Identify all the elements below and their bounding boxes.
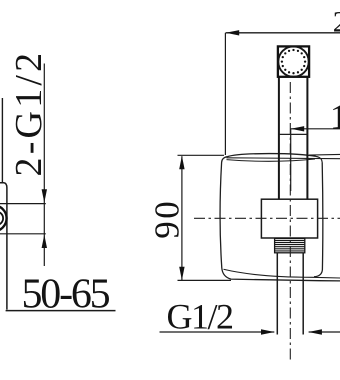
svg-text:230: 230 bbox=[333, 5, 340, 38]
svg-text:G1/2: G1/2 bbox=[167, 297, 234, 337]
svg-text:2-G1/2: 2-G1/2 bbox=[8, 50, 50, 177]
svg-text:150: 150 bbox=[330, 97, 340, 136]
svg-text:90: 90 bbox=[147, 199, 186, 239]
